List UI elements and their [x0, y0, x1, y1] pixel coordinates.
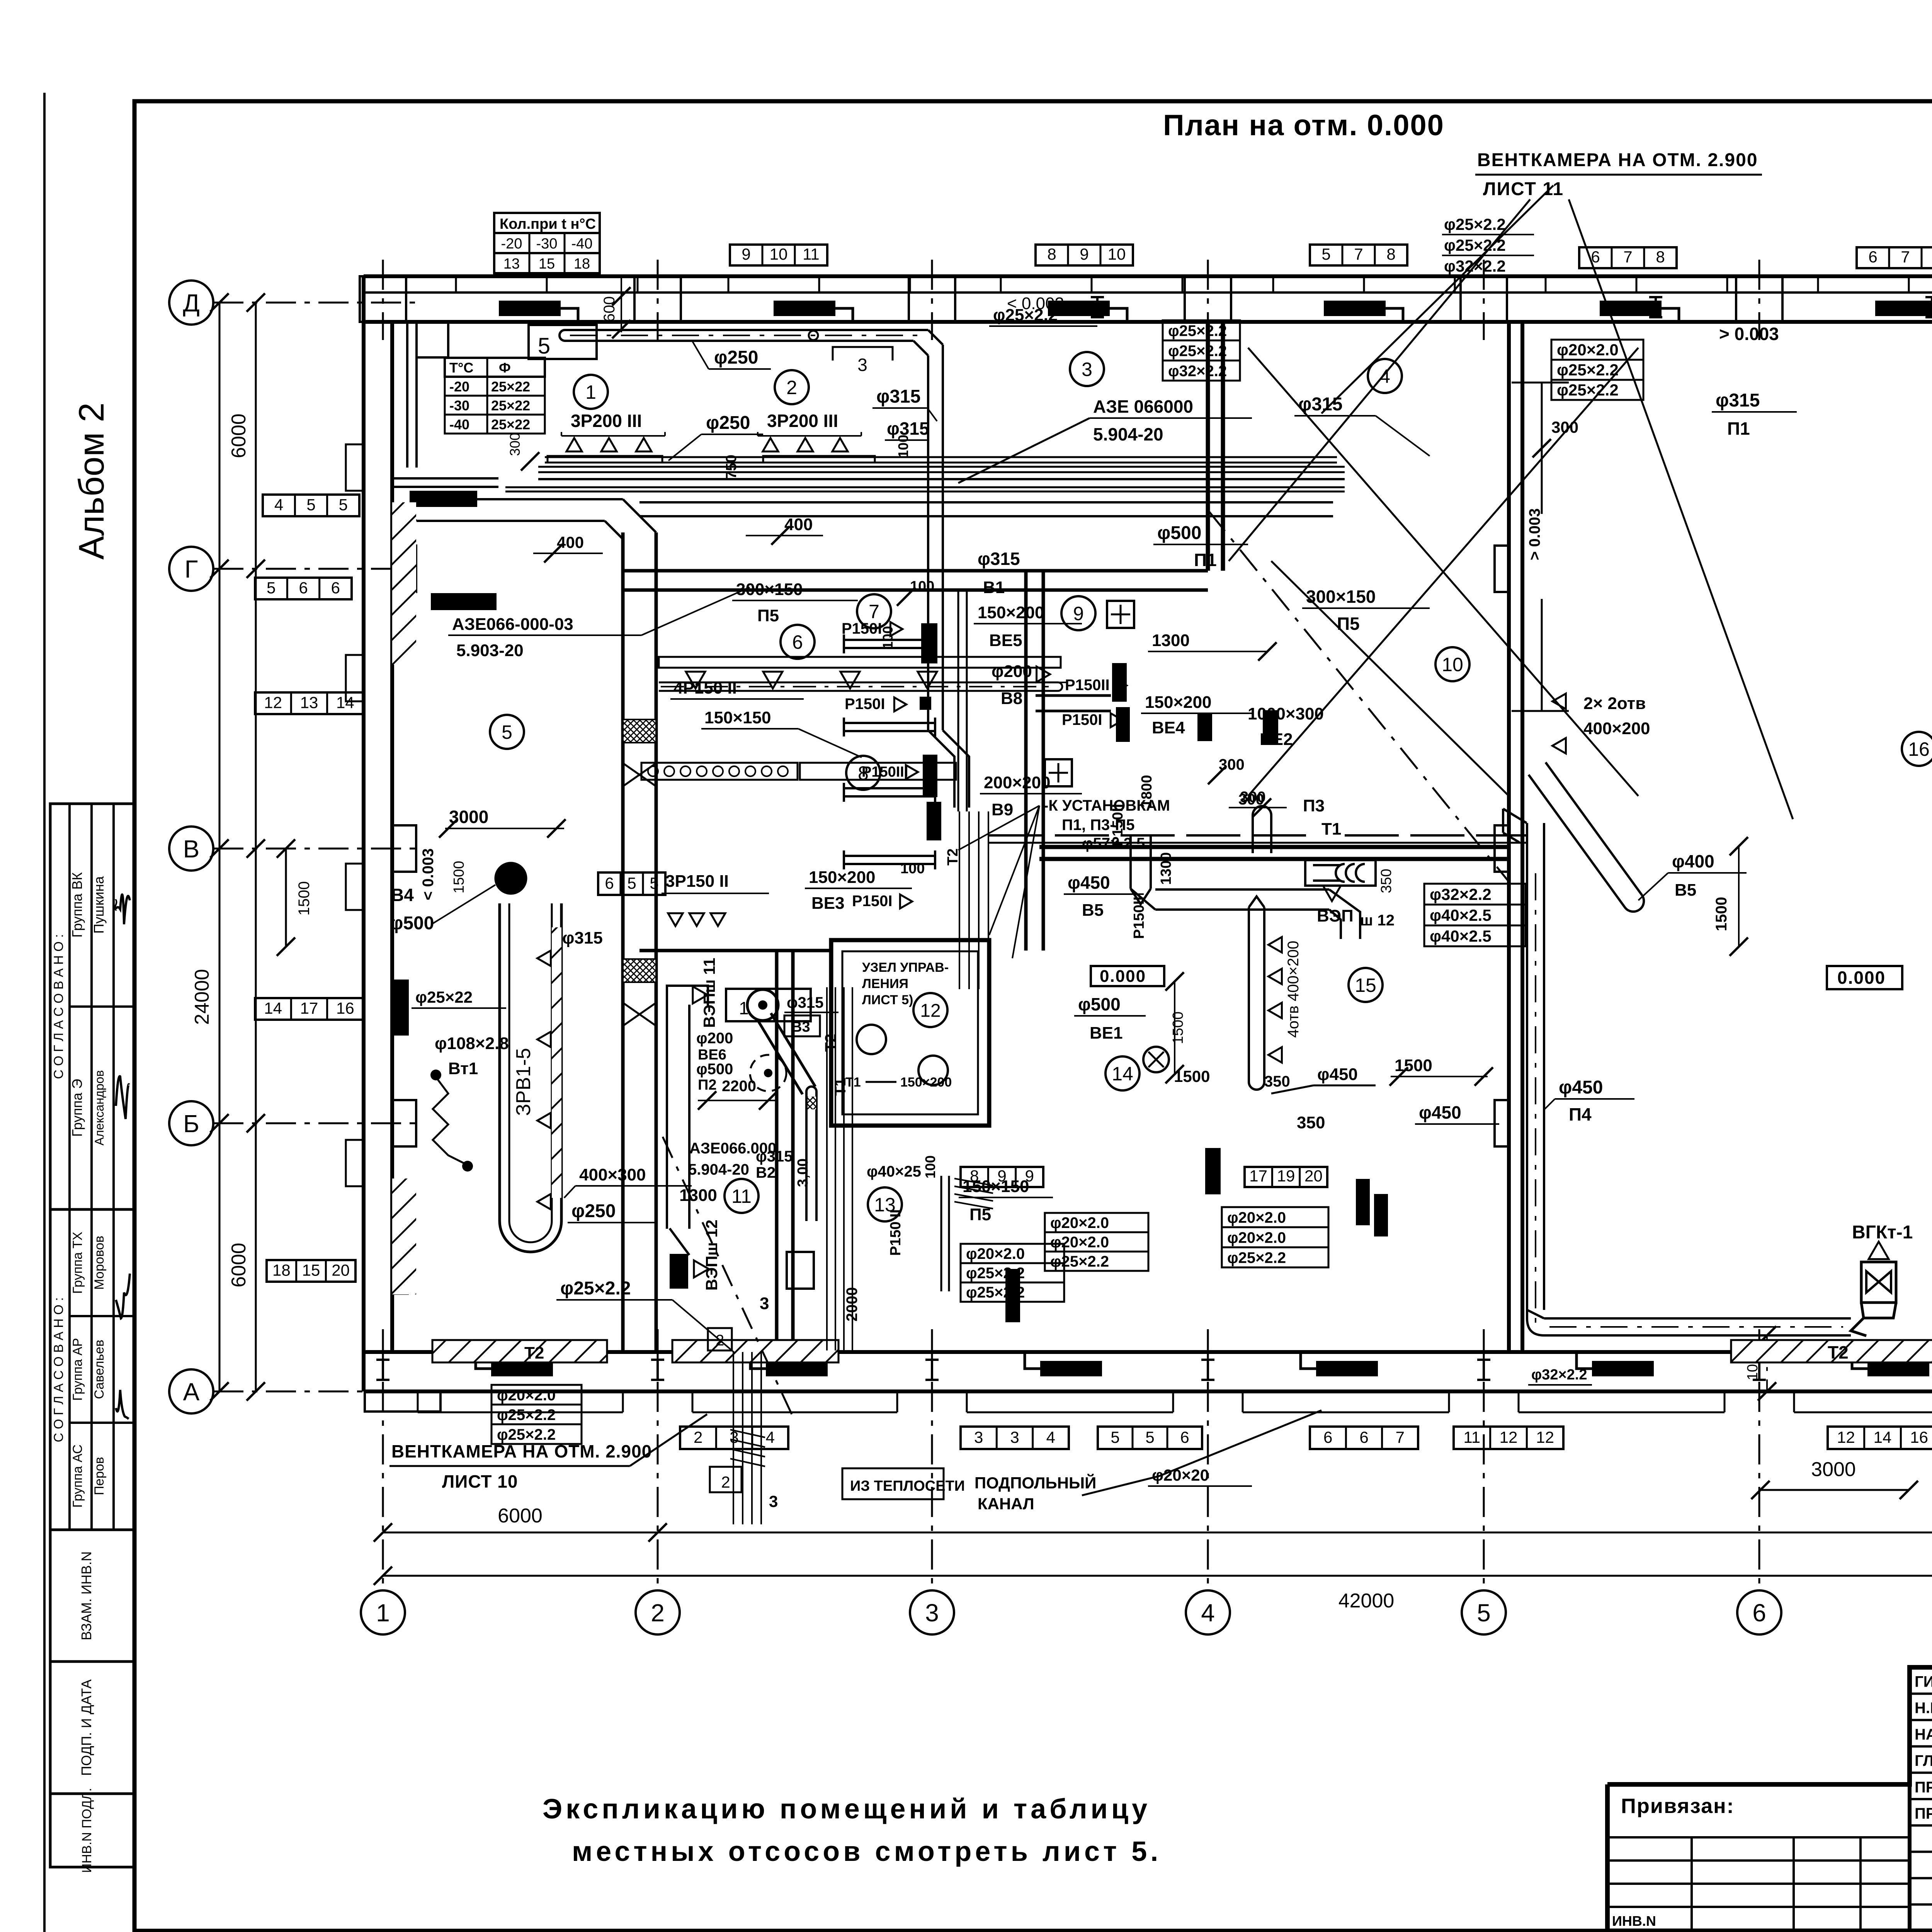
svg-text:1: 1	[585, 381, 596, 403]
svg-text:П5: П5	[969, 1205, 991, 1224]
svg-text:12: 12	[920, 1000, 940, 1021]
svg-text:Группа Э: Группа Э	[69, 1079, 85, 1137]
svg-text:В: В	[183, 835, 200, 863]
svg-text:φ20×2.0: φ20×2.0	[1557, 341, 1619, 359]
svg-text:ЛИСТ 10: ЛИСТ 10	[442, 1471, 518, 1492]
svg-text:< 0.003: < 0.003	[1007, 294, 1064, 313]
svg-text:Р150III: Р150III	[862, 764, 908, 780]
svg-text:13: 13	[300, 693, 318, 711]
svg-text:φ315: φ315	[787, 994, 823, 1011]
svg-text:14: 14	[264, 999, 282, 1017]
svg-text:2000: 2000	[844, 1287, 861, 1321]
svg-text:φ250: φ250	[714, 347, 758, 368]
svg-text:1000×300: 1000×300	[1248, 704, 1324, 723]
svg-text:25×22: 25×22	[491, 379, 530, 395]
svg-text:НАЧ.ОТД.: НАЧ.ОТД.	[1915, 1726, 1932, 1743]
svg-text:Кол.при t н°С: Кол.при t н°С	[500, 216, 596, 232]
svg-text:> 0.003: > 0.003	[1719, 324, 1779, 344]
svg-text:11: 11	[1464, 1428, 1481, 1446]
svg-text:9: 9	[1073, 603, 1084, 624]
svg-text:5: 5	[339, 495, 348, 514]
svg-text:3: 3	[1010, 1428, 1019, 1446]
svg-text:φ32×2.2: φ32×2.2	[1168, 363, 1227, 380]
svg-text:φ25×2.2: φ25×2.2	[1050, 1253, 1109, 1270]
svg-text:16: 16	[1908, 738, 1930, 760]
svg-text:П4: П4	[1569, 1104, 1592, 1124]
svg-text:5: 5	[1477, 1599, 1491, 1627]
svg-text:Т1: Т1	[1321, 820, 1341, 838]
svg-text:φ315: φ315	[978, 549, 1020, 569]
svg-text:местных отсосов смотреть ли: местных отсосов смотреть лист 5.	[572, 1836, 1162, 1867]
svg-text:ГИП: ГИП	[1915, 1673, 1932, 1690]
svg-text:400: 400	[557, 533, 584, 551]
svg-text:ЛИСТ 11: ЛИСТ 11	[1483, 179, 1564, 199]
svg-text:5.904-20: 5.904-20	[1093, 424, 1163, 444]
svg-text:П1: П1	[1727, 418, 1750, 439]
svg-text:φ40×2.5: φ40×2.5	[1430, 927, 1492, 945]
svg-text:100: 100	[880, 626, 896, 649]
svg-text:25×22: 25×22	[491, 417, 530, 432]
svg-text:12: 12	[264, 693, 282, 711]
svg-text:5: 5	[1145, 1428, 1154, 1446]
svg-text:19: 19	[1277, 1167, 1295, 1185]
svg-text:100: 100	[910, 578, 934, 595]
svg-text:5.903-20: 5.903-20	[456, 641, 524, 660]
svg-text:φ25×2.2: φ25×2.2	[966, 1265, 1025, 1282]
svg-text:φ200: φ200	[696, 1030, 733, 1047]
svg-text:УЗЕЛ УПРАВ-: УЗЕЛ УПРАВ-	[862, 960, 949, 975]
svg-text:ВГКт-1: ВГКт-1	[1852, 1222, 1913, 1243]
svg-text:ВЗАМ. ИНВ.N: ВЗАМ. ИНВ.N	[78, 1551, 94, 1640]
svg-text:18: 18	[574, 256, 590, 272]
svg-text:-20: -20	[449, 379, 469, 395]
svg-text:φ25×2.2: φ25×2.2	[1168, 323, 1227, 340]
svg-text:φ450: φ450	[1559, 1077, 1603, 1098]
svg-text:17: 17	[300, 999, 318, 1017]
svg-text:6: 6	[1323, 1428, 1332, 1446]
svg-text:φ20×2.0: φ20×2.0	[497, 1387, 556, 1404]
svg-text:ГЛ.СПЕЦ.: ГЛ.СПЕЦ.	[1915, 1752, 1932, 1769]
svg-text:24000: 24000	[191, 969, 213, 1025]
svg-text:16: 16	[336, 999, 354, 1017]
svg-text:750: 750	[723, 455, 740, 479]
svg-text:-40: -40	[571, 236, 593, 252]
svg-text:11: 11	[731, 1185, 752, 1207]
svg-text:3: 3	[925, 1599, 939, 1627]
svg-text:φ450: φ450	[1317, 1065, 1358, 1084]
svg-text:Р150I: Р150I	[842, 620, 882, 637]
svg-text:15: 15	[539, 256, 555, 272]
svg-text:7: 7	[1623, 248, 1632, 266]
svg-text:Р150I: Р150I	[852, 893, 893, 910]
svg-text:5: 5	[502, 721, 512, 743]
svg-text:17: 17	[1249, 1167, 1267, 1185]
svg-text:400×300: 400×300	[579, 1165, 646, 1184]
svg-text:150×150: 150×150	[963, 1177, 1029, 1196]
svg-text:150×200: 150×200	[978, 603, 1044, 622]
svg-text:150×150: 150×150	[704, 708, 771, 727]
svg-text:φ400: φ400	[1672, 851, 1714, 871]
svg-text:φ250: φ250	[571, 1201, 616, 1221]
svg-text:5: 5	[1321, 245, 1330, 263]
svg-text:Р150II: Р150II	[1110, 804, 1126, 846]
svg-text:1500: 1500	[451, 861, 467, 894]
svg-text:20: 20	[332, 1261, 350, 1279]
svg-text:φ500: φ500	[390, 913, 434, 934]
svg-text:100: 100	[895, 435, 911, 458]
svg-text:φ250: φ250	[706, 413, 750, 433]
svg-text:ИНВ.N: ИНВ.N	[1612, 1913, 1656, 1929]
svg-text:φ500: φ500	[1157, 523, 1201, 543]
svg-text:25×22: 25×22	[491, 398, 530, 413]
svg-text:φ200: φ200	[992, 662, 1032, 681]
svg-text:6: 6	[1180, 1428, 1189, 1446]
svg-text:φ20×2.0: φ20×2.0	[1050, 1214, 1109, 1231]
svg-text:150×200: 150×200	[1145, 693, 1212, 712]
svg-text:10: 10	[1108, 245, 1126, 263]
svg-text:Ф: Ф	[499, 360, 511, 376]
svg-text:0.000: 0.000	[1837, 968, 1886, 988]
svg-text:3: 3	[1082, 359, 1092, 380]
svg-text:3,00: 3,00	[795, 1158, 811, 1187]
svg-text:> 0.003: > 0.003	[1526, 508, 1543, 560]
svg-text:φ315: φ315	[562, 929, 603, 947]
svg-text:350: 350	[1264, 1073, 1290, 1090]
svg-text:С О Г Л А С О В А Н О :: С О Г Л А С О В А Н О :	[51, 934, 66, 1079]
svg-text:1300: 1300	[1158, 852, 1174, 885]
svg-text:П5: П5	[757, 606, 779, 625]
svg-text:4отв 400×200: 4отв 400×200	[1285, 940, 1302, 1037]
svg-text:12: 12	[1536, 1428, 1554, 1446]
svg-text:ВЕ1: ВЕ1	[1090, 1024, 1123, 1043]
svg-text:φ500: φ500	[1078, 994, 1121, 1014]
svg-text:Группа ВК: Группа ВК	[69, 872, 85, 937]
svg-text:5: 5	[267, 578, 276, 597]
svg-text:6: 6	[1752, 1599, 1766, 1627]
svg-text:Моровов: Моровов	[92, 1236, 107, 1290]
svg-text:300: 300	[507, 433, 523, 456]
svg-text:ИЗ ТЕПЛОСЕТИ: ИЗ ТЕПЛОСЕТИ	[850, 1478, 965, 1494]
svg-text:Н.КОНТР.: Н.КОНТР.	[1915, 1700, 1932, 1717]
svg-text:1800: 1800	[1139, 775, 1155, 808]
svg-text:В4: В4	[391, 885, 414, 905]
svg-text:6000: 6000	[228, 1243, 250, 1287]
svg-text:ЗРВ1-5: ЗРВ1-5	[512, 1048, 535, 1116]
svg-text:-40: -40	[449, 417, 469, 432]
svg-text:φ25×22: φ25×22	[415, 988, 473, 1006]
svg-text:φ20×2.0: φ20×2.0	[966, 1245, 1025, 1262]
svg-text:2: 2	[721, 1473, 730, 1491]
svg-text:1500: 1500	[1395, 1056, 1432, 1075]
svg-text:2: 2	[694, 1428, 702, 1446]
svg-text:-30: -30	[536, 236, 558, 252]
svg-text:< 0.003: < 0.003	[420, 848, 437, 900]
svg-text:350: 350	[1297, 1113, 1325, 1132]
svg-text:12: 12	[1500, 1428, 1518, 1446]
svg-text:5: 5	[650, 874, 658, 892]
svg-text:Перов: Перов	[92, 1457, 107, 1495]
svg-text:Р150I: Р150I	[1062, 711, 1102, 728]
svg-text:φ315: φ315	[876, 386, 920, 407]
svg-text:Р150 II: Р150 II	[888, 1209, 904, 1256]
svg-text:Вт1: Вт1	[448, 1059, 478, 1078]
svg-text:1300: 1300	[679, 1186, 717, 1205]
svg-text:Б: Б	[183, 1110, 199, 1138]
svg-text:42000: 42000	[1338, 1590, 1395, 1612]
svg-text:14: 14	[1874, 1428, 1892, 1446]
svg-text:6: 6	[1359, 1428, 1368, 1446]
svg-text:ЛИСТ 5): ЛИСТ 5)	[862, 993, 913, 1007]
svg-text:φ20×2.0: φ20×2.0	[1050, 1234, 1109, 1251]
svg-text:Р150I: Р150I	[845, 696, 885, 713]
svg-text:φ25×2.2: φ25×2.2	[966, 1284, 1025, 1301]
svg-text:5: 5	[1111, 1428, 1119, 1446]
svg-text:350: 350	[1378, 869, 1395, 893]
svg-text:200×200: 200×200	[984, 773, 1051, 792]
svg-text:20: 20	[1304, 1167, 1323, 1185]
svg-text:3: 3	[769, 1492, 778, 1510]
svg-text:6000: 6000	[228, 413, 250, 458]
svg-text:3: 3	[857, 355, 867, 375]
svg-text:4: 4	[1046, 1428, 1055, 1446]
svg-text:φ25×2.2: φ25×2.2	[1557, 381, 1619, 399]
svg-text:φ25×2.2: φ25×2.2	[497, 1426, 556, 1443]
svg-text:ВЕ4: ВЕ4	[1152, 718, 1185, 737]
svg-text:300×150: 300×150	[1306, 587, 1376, 607]
svg-text:2: 2	[786, 377, 797, 398]
svg-text:3: 3	[760, 1294, 769, 1313]
svg-text:Савельев: Савельев	[92, 1340, 107, 1399]
svg-text:ЛЕНИЯ: ЛЕНИЯ	[862, 976, 908, 991]
svg-text:150×200: 150×200	[809, 868, 876, 887]
svg-text:ВЕ3: ВЕ3	[811, 894, 845, 913]
svg-text:8: 8	[1047, 245, 1056, 263]
svg-text:ПРОЕКТ.: ПРОЕКТ.	[1915, 1779, 1932, 1796]
svg-text:1500: 1500	[296, 881, 313, 916]
svg-text:План на отм. 0.000: План на отм. 0.000	[1163, 109, 1444, 142]
svg-text:4: 4	[766, 1428, 775, 1446]
svg-text:3Р200 III: 3Р200 III	[571, 411, 642, 431]
svg-text:В1: В1	[983, 578, 1005, 597]
svg-text:ВЕНТКАМЕРА НА ОТМ. 2.900: ВЕНТКАМЕРА НА ОТМ. 2.900	[1477, 150, 1758, 170]
svg-text:6: 6	[331, 578, 340, 597]
svg-text:6: 6	[1868, 248, 1877, 266]
svg-text:3000: 3000	[1811, 1458, 1856, 1481]
svg-text:φ25×2.2: φ25×2.2	[1557, 361, 1619, 379]
svg-text:Александров: Александров	[92, 1070, 106, 1146]
svg-text:-30: -30	[449, 398, 469, 413]
svg-text:10: 10	[1442, 654, 1463, 675]
svg-text:П1: П1	[1194, 550, 1217, 570]
svg-text:Т°С: Т°С	[449, 360, 473, 376]
svg-text:φ32×2.2: φ32×2.2	[1531, 1367, 1587, 1383]
svg-text:φ32×2.2: φ32×2.2	[1430, 885, 1492, 903]
svg-text:Альбом 2: Альбом 2	[72, 403, 111, 560]
svg-text:КАНАЛ: КАНАЛ	[978, 1495, 1034, 1513]
svg-text:ИНВ.N ПОДЛ.: ИНВ.N ПОДЛ.	[80, 1788, 94, 1873]
svg-text:6: 6	[792, 631, 803, 653]
svg-text:Г: Г	[185, 555, 198, 583]
svg-text:6000: 6000	[498, 1505, 543, 1527]
svg-text:ВЭПш 11: ВЭПш 11	[700, 958, 718, 1028]
svg-text:5: 5	[627, 874, 636, 892]
svg-text:φ20×20: φ20×20	[1152, 1466, 1209, 1484]
svg-text:Группа АС: Группа АС	[70, 1444, 85, 1508]
svg-text:В9: В9	[992, 800, 1013, 819]
svg-text:φ450: φ450	[1068, 872, 1110, 893]
svg-text:2200: 2200	[722, 1078, 756, 1095]
svg-text:15: 15	[302, 1261, 320, 1279]
svg-text:АЗЕ066-000-03: АЗЕ066-000-03	[452, 615, 573, 634]
svg-text:φ25×2.2: φ25×2.2	[560, 1278, 631, 1299]
svg-text:1: 1	[376, 1599, 390, 1627]
svg-text:11: 11	[803, 245, 820, 263]
svg-text:14: 14	[336, 693, 354, 711]
svg-text:1300: 1300	[1152, 631, 1190, 650]
svg-text:φ25×2.2: φ25×2.2	[1444, 215, 1506, 233]
svg-text:φ40×2.5: φ40×2.5	[1430, 906, 1492, 924]
svg-text:5: 5	[306, 495, 315, 514]
svg-text:5.904-20: 5.904-20	[688, 1161, 749, 1178]
svg-text:φ108×2.8: φ108×2.8	[435, 1034, 509, 1053]
svg-text:Т2: Т2	[822, 1034, 839, 1052]
svg-text:3Р150 II: 3Р150 II	[665, 872, 729, 891]
svg-text:φ20×2.0: φ20×2.0	[1227, 1209, 1286, 1226]
svg-text:600: 600	[601, 296, 618, 322]
svg-text:3000: 3000	[449, 807, 488, 827]
svg-text:3: 3	[974, 1428, 983, 1446]
svg-text:ПРОВЕР.: ПРОВЕР.	[1915, 1805, 1932, 1822]
svg-text:10: 10	[770, 245, 788, 263]
svg-text:2× 2отв: 2× 2отв	[1583, 694, 1646, 713]
svg-text:Группа ТХ: Группа ТХ	[70, 1232, 85, 1294]
svg-text:ПОДПОЛЬНЫЙ: ПОДПОЛЬНЫЙ	[975, 1473, 1096, 1492]
svg-text:100: 100	[922, 1155, 938, 1179]
svg-text:150×200: 150×200	[900, 1075, 952, 1090]
svg-text:13: 13	[503, 256, 520, 272]
svg-text:П3: П3	[1303, 796, 1325, 815]
svg-text:В5: В5	[1675, 881, 1696, 900]
svg-text:А: А	[183, 1378, 200, 1406]
svg-text:В5: В5	[1082, 901, 1104, 920]
svg-text:7: 7	[869, 601, 879, 622]
svg-text:4: 4	[1201, 1599, 1215, 1627]
svg-text:φ25×2.2: φ25×2.2	[1227, 1250, 1286, 1267]
svg-text:1500: 1500	[1713, 897, 1730, 931]
svg-text:φ315: φ315	[1716, 390, 1760, 411]
svg-text:8: 8	[1386, 245, 1395, 263]
svg-text:Привязан:: Привязан:	[1621, 1794, 1735, 1818]
svg-text:2: 2	[651, 1599, 665, 1627]
svg-text:400×200: 400×200	[1583, 719, 1650, 738]
svg-text:П2: П2	[698, 1077, 716, 1093]
svg-text:18: 18	[272, 1261, 291, 1279]
svg-text:14: 14	[1112, 1063, 1133, 1085]
svg-text:3Р200 III: 3Р200 III	[767, 411, 838, 431]
svg-text:Р150II: Р150II	[1065, 677, 1110, 694]
svg-text:4: 4	[274, 495, 283, 514]
svg-text:16: 16	[1910, 1428, 1928, 1446]
svg-text:Группа АР: Группа АР	[70, 1338, 85, 1401]
svg-text:Экспликацию помещений и таб: Экспликацию помещений и таблицу	[543, 1794, 1151, 1825]
svg-text:15: 15	[1355, 975, 1376, 996]
svg-text:Т2: Т2	[1828, 1342, 1849, 1362]
svg-text:АЗЕ 066000: АЗЕ 066000	[1093, 396, 1193, 417]
svg-text:φ20×2.0: φ20×2.0	[1227, 1230, 1286, 1247]
svg-text:7: 7	[1901, 248, 1910, 266]
svg-text:φ25×2.2: φ25×2.2	[497, 1406, 556, 1423]
svg-text:7: 7	[1396, 1428, 1405, 1446]
svg-text:12: 12	[1837, 1428, 1855, 1446]
svg-text:ВЕ5: ВЕ5	[989, 631, 1022, 650]
svg-text:9: 9	[1080, 245, 1088, 263]
svg-text:400: 400	[784, 515, 813, 534]
svg-text:Т1: Т1	[832, 1078, 849, 1096]
svg-text:ПОДП. И ДАТА: ПОДП. И ДАТА	[78, 1679, 94, 1776]
svg-text:В2: В2	[756, 1164, 776, 1181]
svg-text:7: 7	[1354, 245, 1363, 263]
svg-text:Р150II: Р150II	[1131, 896, 1147, 939]
svg-text:2: 2	[716, 1332, 724, 1349]
svg-text:9: 9	[742, 245, 750, 263]
svg-text:С О Г Л А С О В А Н О :: С О Г Л А С О В А Н О :	[51, 1297, 66, 1442]
svg-text:Д: Д	[183, 289, 199, 317]
svg-text:Т2: Т2	[524, 1344, 544, 1362]
svg-text:φ450: φ450	[1419, 1102, 1461, 1122]
svg-text:ш 12: ш 12	[1360, 912, 1395, 929]
svg-text:φ500: φ500	[696, 1061, 733, 1078]
svg-text:φ40×25: φ40×25	[867, 1163, 921, 1180]
svg-text:6: 6	[299, 578, 308, 597]
svg-text:Т2: Т2	[945, 849, 961, 866]
svg-text:φ315: φ315	[756, 1148, 793, 1165]
svg-text:1500: 1500	[1170, 1012, 1186, 1044]
svg-text:0.000: 0.000	[1100, 967, 1146, 986]
svg-text:8: 8	[1656, 248, 1665, 266]
svg-text:4Р150 II: 4Р150 II	[673, 679, 737, 697]
svg-text:6: 6	[605, 874, 614, 892]
svg-text:φ25×2.2: φ25×2.2	[1168, 343, 1227, 360]
svg-text:5: 5	[538, 333, 550, 359]
svg-text:-20: -20	[501, 236, 522, 252]
svg-text:В3: В3	[791, 1019, 810, 1035]
svg-text:φ315: φ315	[1298, 394, 1342, 415]
